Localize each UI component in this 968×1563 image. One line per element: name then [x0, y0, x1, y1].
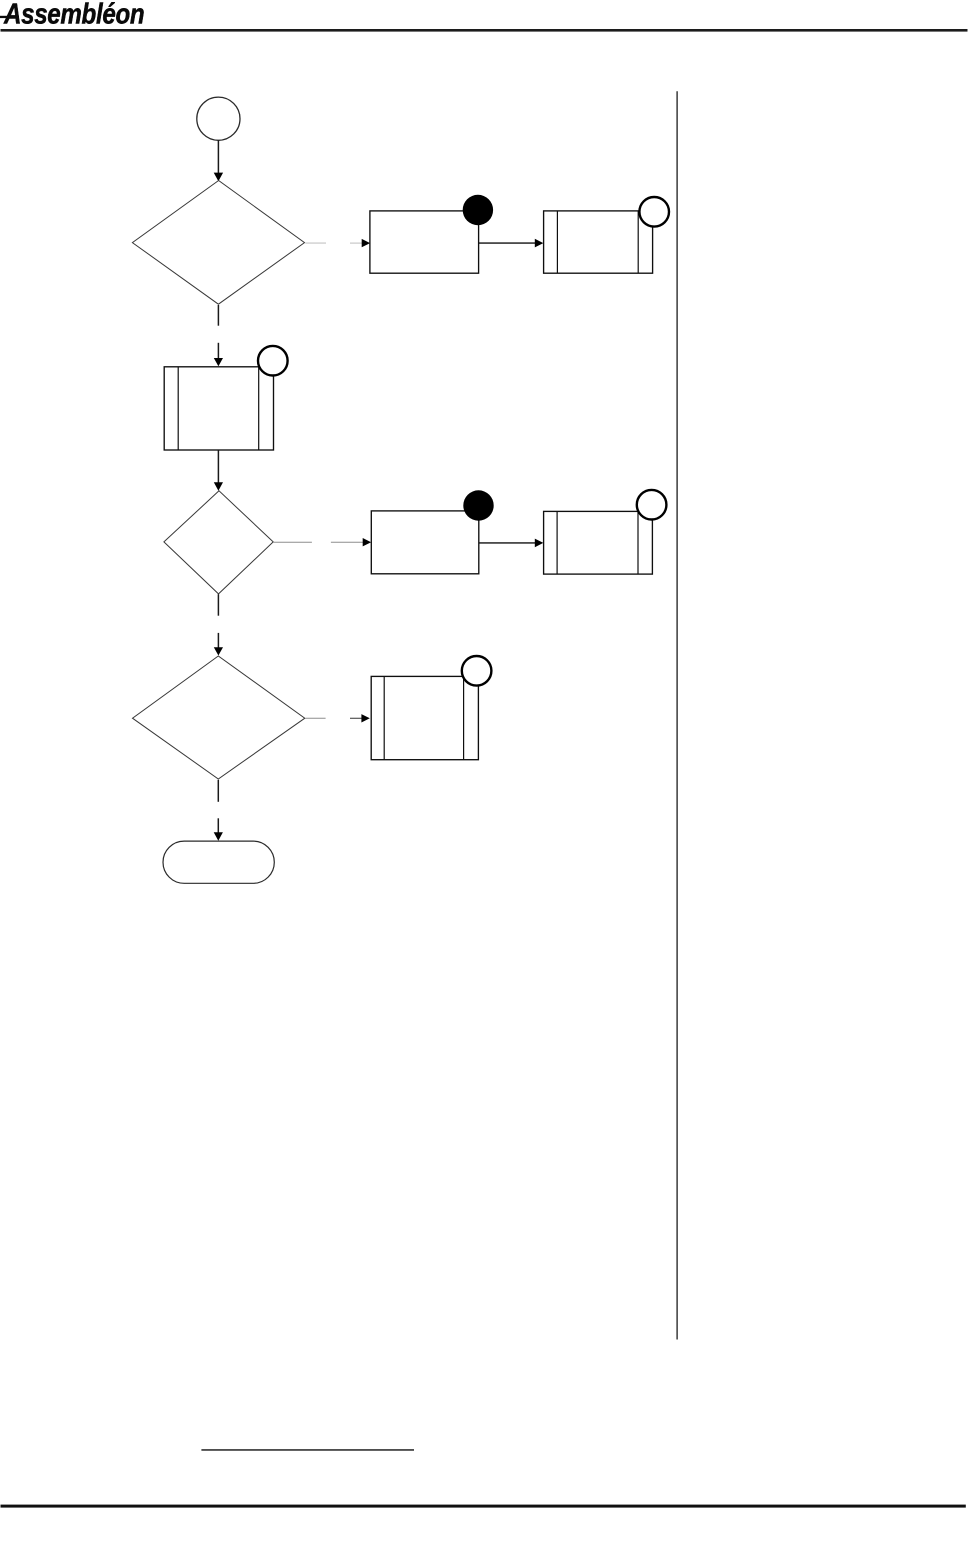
bottom page rule: [1, 1505, 966, 1508]
subprocess box 3 inner right bar: [258, 367, 260, 450]
wire box 4 to subprocess box 5: [479, 542, 535, 544]
subprocess box 5: [544, 511, 653, 574]
subprocess box 5 inner left bar: [556, 511, 558, 574]
action box 4: [371, 511, 479, 574]
white anchor circle on subprocess box 2: [639, 197, 669, 227]
white anchor circle on subprocess box 5: [637, 490, 667, 520]
wire box 1 to subprocess box 2: [479, 242, 536, 244]
arrowhead into subprocess box 3: [214, 358, 223, 366]
logo A crossbar: [0, 16, 19, 18]
decision diamond 1: [132, 181, 304, 305]
subprocess box 6 inner left bar: [383, 676, 385, 759]
subprocess box 5 inner right bar: [637, 511, 639, 574]
white anchor circle on subprocess box 3: [258, 346, 288, 376]
wire subprocess box 3 to diamond 2: [217, 450, 219, 483]
arrowhead into diamond 1: [214, 173, 223, 182]
arrowhead into diamond 2: [214, 482, 223, 490]
arrowhead into subprocess box 5: [535, 539, 544, 548]
arrowhead into action box 4: [363, 538, 371, 546]
wire diamond 3 south (dashed): [217, 780, 219, 802]
arrowhead into diamond 3: [214, 647, 223, 655]
wire diamond 2 south (dashed): [217, 594, 219, 616]
black anchor circle on box 4: [463, 490, 493, 520]
wire diamond 2 east (dashed gray): [273, 541, 312, 543]
subprocess box 6: [371, 676, 478, 759]
arrowhead into subprocess box 6: [361, 714, 369, 722]
wire start to diamond 1: [217, 140, 219, 173]
subprocess box 2 inner left bar: [556, 211, 558, 273]
subprocess box 2: [544, 211, 653, 273]
terminator rounded box: [163, 841, 274, 883]
logo Assembleon wordmark: [0, 0, 144, 30]
wire diamond 1 south (dashed): [217, 305, 219, 326]
arrowhead into terminator: [214, 832, 223, 840]
header rule: [1, 29, 968, 32]
action box 1: [370, 211, 479, 273]
subprocess box 6 inner right bar: [463, 676, 465, 759]
footnote rule: [201, 1449, 414, 1451]
white anchor circle on subprocess box 6: [462, 656, 492, 686]
arrowhead into subprocess box 2: [535, 239, 544, 248]
decision diamond 3: [133, 656, 305, 779]
start circle: [197, 97, 240, 140]
black anchor circle on box 1: [463, 195, 493, 225]
svg-text:Assembléon: Assembléon: [3, 0, 144, 30]
decision diamond 2: [164, 491, 273, 594]
subprocess box 3: [164, 367, 273, 450]
arrowhead into action box 1: [362, 239, 370, 247]
wire diamond 1 east (dashed gray): [305, 242, 326, 244]
column separator vertical line: [676, 91, 678, 1339]
subprocess box 3 inner left bar: [177, 367, 179, 450]
subprocess box 2 inner right bar: [637, 211, 639, 273]
wire diamond 3 east (dashed gray): [306, 717, 326, 719]
